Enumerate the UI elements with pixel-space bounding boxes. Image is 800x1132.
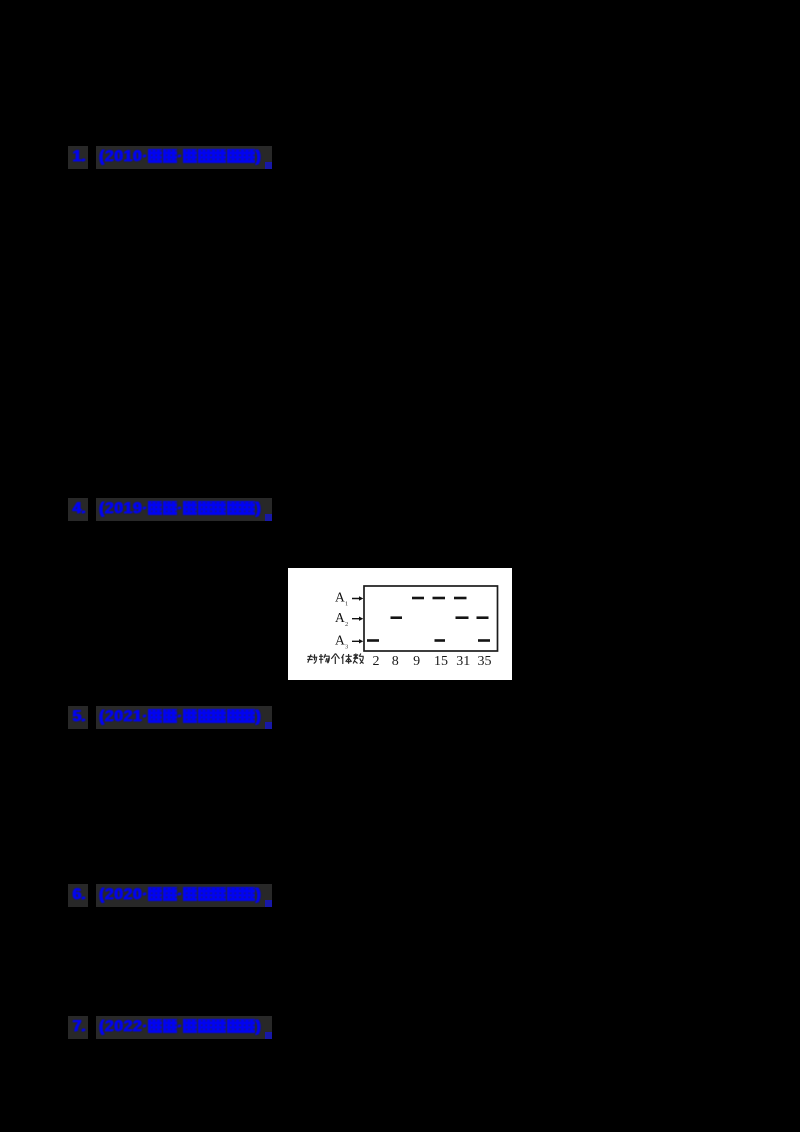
svg-text:31: 31	[456, 654, 470, 669]
svg-text:15: 15	[434, 654, 448, 669]
question line 1	[0, 146, 800, 170]
svg-text:A: A	[335, 610, 345, 625]
svg-text:A: A	[335, 590, 345, 605]
svg-text:8: 8	[392, 654, 399, 669]
figure: gel electrophoresis image	[288, 568, 512, 680]
svg-text:9: 9	[413, 654, 420, 669]
svg-text:3: 3	[345, 644, 348, 651]
svg-text:A: A	[335, 633, 345, 648]
question line 5	[0, 1016, 800, 1040]
svg-text:2: 2	[373, 654, 380, 669]
gel box	[364, 586, 498, 651]
svg-text:1: 1	[345, 601, 348, 608]
question line 4	[0, 884, 800, 908]
question line 2	[0, 498, 800, 522]
svg-text:2: 2	[345, 621, 348, 628]
arrow A1	[352, 596, 363, 600]
bands row A2	[391, 616, 489, 619]
svg-text:35: 35	[478, 654, 492, 669]
question line 3	[0, 706, 800, 730]
caption fake CJK 动物个体数	[307, 654, 363, 665]
axis numbers	[373, 654, 492, 669]
arrow A3	[352, 639, 363, 643]
bands row A3	[367, 639, 490, 642]
bands row A1	[412, 597, 467, 600]
arrow A2	[352, 617, 363, 621]
